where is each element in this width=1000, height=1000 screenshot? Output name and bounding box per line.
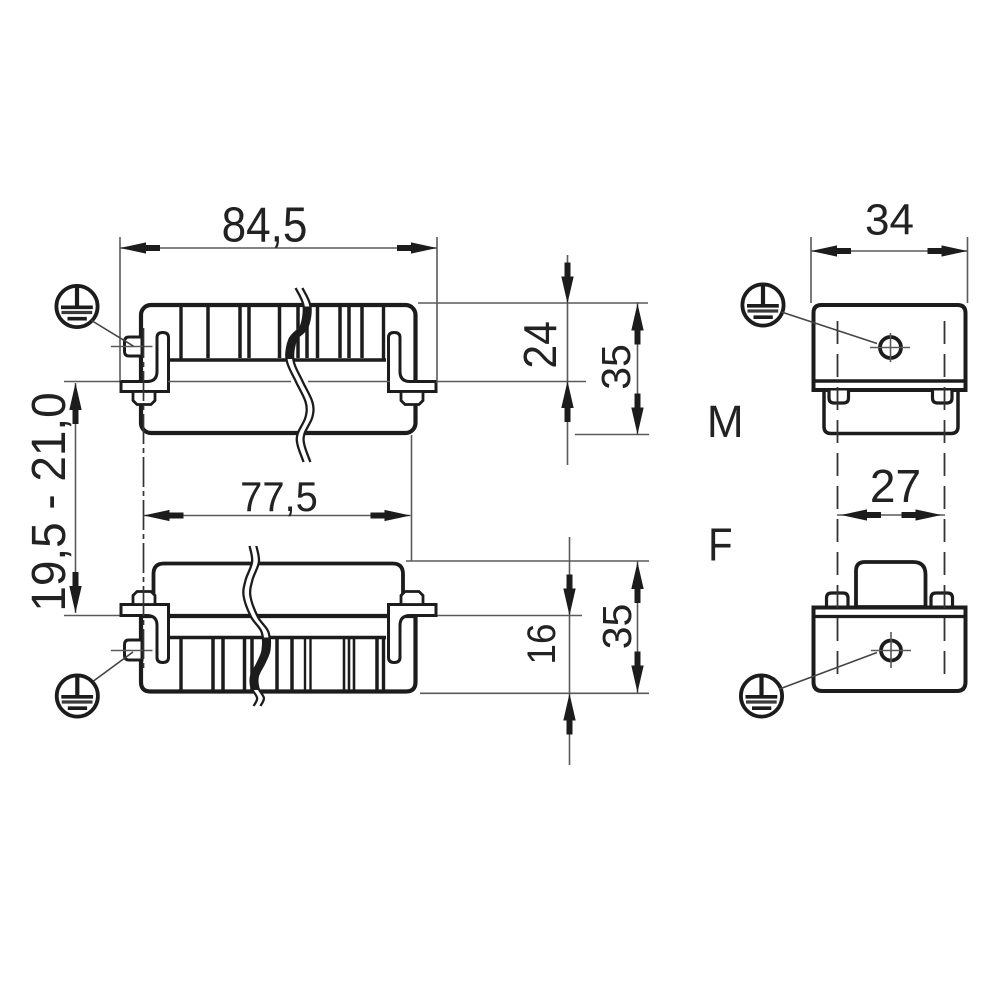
dimension 84,5 left extension line — [119, 237, 121, 381]
M left guide bracket — [121, 333, 169, 392]
earth symbol bottom left — [57, 675, 98, 716]
F side mating cap — [856, 562, 926, 607]
F insert body outline — [141, 616, 416, 692]
F contact rib top line — [168, 636, 386, 640]
earth symbol bottom right — [741, 675, 782, 716]
earth symbol top left — [56, 286, 97, 327]
F contact rib field left boundary — [179, 639, 182, 690]
M side flange line — [814, 379, 966, 382]
dimension 35 bottom arrows — [631, 562, 643, 603]
F contact ribs — [213, 639, 377, 690]
dimension 84,5 right extension line — [436, 237, 438, 383]
dimension 27 arrows — [841, 509, 881, 520]
F side right screw bump — [931, 593, 953, 607]
M side left latch tab — [829, 391, 849, 404]
F side earth screw hole — [881, 641, 901, 661]
F side body — [814, 608, 966, 692]
guide centre dashed line left — [837, 321, 839, 676]
top thin ext line y=303 — [418, 302, 648, 304]
dimension 84,5 line — [120, 247, 437, 249]
M right guide bracket — [389, 333, 437, 392]
svg-text:77,5: 77,5 — [240, 473, 318, 520]
dimension 19,5-21,0 arrows — [69, 383, 81, 424]
M insert contact rib field right boundary — [382, 307, 385, 359]
F insert mating cap — [154, 564, 404, 618]
svg-text:35: 35 — [594, 604, 640, 650]
dimension 34 left extension line — [810, 237, 812, 303]
svg-text:24: 24 — [516, 321, 567, 368]
M insert rib bottom line — [168, 358, 386, 362]
F side flange line — [814, 615, 966, 618]
dimension 19,5-21,0 line — [75, 383, 77, 613]
M side body — [814, 305, 966, 390]
dimension 35 top arrows — [631, 304, 643, 345]
leader line top right — [782, 312, 878, 344]
M side lower mating section — [824, 390, 958, 434]
leader line bottom left — [94, 652, 134, 681]
F side screw hole crosshair — [871, 650, 911, 652]
F earth screw crosshair — [111, 650, 153, 652]
F contact rib field right boundary — [382, 639, 385, 690]
dimension 84,5 arrows — [120, 242, 160, 253]
leader line bottom right — [780, 653, 878, 690]
dimension 35 top line — [637, 302, 639, 435]
svg-text:35: 35 — [593, 344, 639, 390]
F right guide bracket — [389, 605, 437, 663]
dimension 24 arrows — [561, 263, 573, 304]
M earth screw crosshair — [111, 346, 153, 348]
long thin line y=381.5 — [64, 381, 586, 383]
earth symbol top right — [742, 284, 783, 325]
dimension 24 line — [567, 255, 569, 465]
guide centre dashed line right — [944, 321, 946, 676]
dimension 27 line — [837, 514, 945, 516]
M left fixing nut — [133, 392, 155, 405]
svg-text:F: F — [708, 520, 732, 571]
M insert contact ribs — [208, 307, 362, 358]
leader line top left — [92, 321, 135, 347]
dimension 34 right extension line — [967, 237, 969, 303]
thin line y=381.5 across body — [168, 381, 291, 383]
svg-text:19,5 - 21,0: 19,5 - 21,0 — [21, 392, 75, 611]
M side screw hole crosshair — [870, 347, 910, 349]
dimension 34 line — [811, 250, 968, 252]
F left guide bracket — [121, 605, 169, 663]
F left fixing nut — [133, 592, 155, 605]
dimension 16 arrows — [563, 575, 575, 616]
dimension 77,5 arrows — [144, 510, 184, 521]
dimension 77,5 line — [144, 515, 411, 517]
svg-text:16: 16 — [520, 624, 565, 665]
tick y=434.5 — [575, 434, 649, 436]
dimension 34 arrows — [811, 245, 851, 256]
M right fixing nut — [401, 392, 423, 405]
long thin line y=615.5 — [64, 615, 582, 617]
M insert contact rib field left boundary — [179, 307, 182, 359]
M side earth screw hole — [880, 337, 901, 358]
svg-text:84,5: 84,5 — [222, 197, 308, 252]
F side left screw bump — [827, 593, 849, 607]
tick y=561 — [406, 560, 649, 562]
M earth screw bump — [125, 337, 143, 356]
screws centre line dash-dot — [143, 328, 145, 672]
tick y=693.3 — [420, 692, 649, 694]
F earth screw bump — [125, 640, 143, 660]
M insert body outline — [141, 305, 416, 433]
svg-text:27: 27 — [870, 460, 921, 512]
svg-text:34: 34 — [865, 196, 914, 245]
dimension 35 bottom line — [637, 561, 639, 694]
svg-text:M: M — [707, 398, 744, 447]
M side right latch tab — [933, 391, 953, 404]
F right fixing nut — [401, 592, 423, 605]
77,5 right extension line — [411, 435, 413, 561]
dimension 16 line — [569, 537, 571, 765]
